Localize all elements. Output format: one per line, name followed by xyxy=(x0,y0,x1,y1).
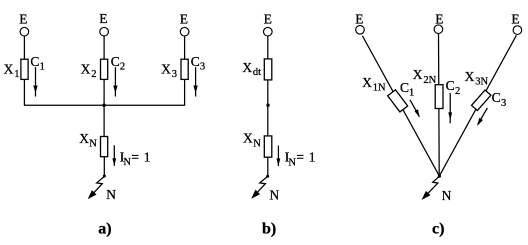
label X1N (c) xyxy=(362,75,386,93)
label X2N (c) xyxy=(413,67,437,86)
svg-text:N: N xyxy=(123,157,131,168)
svg-text:2: 2 xyxy=(455,86,460,97)
svg-text:C: C xyxy=(191,54,200,69)
wire E2 to N point (c) xyxy=(438,34,441,176)
resistor X1 (a) xyxy=(21,59,28,79)
svg-text:=: = xyxy=(131,149,139,164)
junction dot (a) xyxy=(102,104,105,107)
svg-text:X: X xyxy=(242,60,252,75)
wire X3 to bus (a) xyxy=(184,79,186,105)
terminal E2 circle (a) xyxy=(100,27,109,36)
junction dot (b) xyxy=(266,104,269,107)
label IN = 1 (a) xyxy=(120,149,151,168)
current arrow IN (b) xyxy=(277,146,281,167)
current arrow C2 (a) xyxy=(113,67,117,96)
label XN (b) xyxy=(243,131,261,150)
svg-text:C: C xyxy=(446,78,455,93)
svg-text:C: C xyxy=(111,54,120,69)
wire Xdt to XN (b) xyxy=(267,80,269,136)
svg-text:2: 2 xyxy=(120,62,125,73)
fault lightning arrow to N (b) xyxy=(251,176,267,198)
current arrow C3 (c) xyxy=(477,108,487,126)
terminal E1 circle (a) xyxy=(20,27,29,36)
wire E to Xdt (b) xyxy=(267,36,269,59)
svg-text:b): b) xyxy=(262,221,276,238)
svg-text:C: C xyxy=(400,80,409,95)
svg-text:=: = xyxy=(296,150,304,165)
svg-text:X: X xyxy=(79,131,89,146)
terminal E3 circle (c) xyxy=(513,26,522,35)
wire E1 to X1 (a) xyxy=(23,36,25,59)
label X2 (a) xyxy=(81,61,97,80)
wire XN to fault point (a) xyxy=(103,157,105,176)
svg-text:N: N xyxy=(442,188,452,203)
wire E2 to X2 (a) xyxy=(103,36,105,59)
svg-text:X: X xyxy=(362,75,372,90)
label X3N (c) xyxy=(465,69,489,87)
fault point dot (a) xyxy=(103,175,106,178)
svg-text:1: 1 xyxy=(409,88,414,99)
svg-text:X: X xyxy=(4,62,14,77)
svg-text:a): a) xyxy=(98,221,111,238)
resistor X2 (a) xyxy=(101,59,108,79)
svg-text:E: E xyxy=(99,11,107,26)
wire X1 to bus (a) xyxy=(23,79,25,105)
svg-text:1: 1 xyxy=(144,149,151,164)
bus wire (a) xyxy=(24,104,185,106)
resistor X2N (c) xyxy=(435,85,443,109)
label C1 (c) xyxy=(400,80,414,99)
label C1 (a) xyxy=(30,54,44,73)
wire E1 to N point (c) xyxy=(362,36,439,176)
current arrow C3 (a) xyxy=(193,67,197,96)
svg-text:E: E xyxy=(19,12,27,27)
resistor X3 (a) xyxy=(181,59,188,79)
terminal E circle (b) xyxy=(264,27,273,36)
svg-text:3: 3 xyxy=(172,69,177,80)
svg-text:2: 2 xyxy=(91,69,96,80)
fault point dot (b) xyxy=(266,175,269,178)
svg-text:E: E xyxy=(180,11,188,26)
svg-text:3: 3 xyxy=(200,62,205,73)
svg-text:X: X xyxy=(161,61,171,76)
terminal E3 circle (a) xyxy=(180,27,189,36)
svg-text:E: E xyxy=(511,11,519,26)
wire E3 to N point (c) xyxy=(439,35,516,176)
current arrow C1 (c) xyxy=(410,100,420,118)
label C3 (a) xyxy=(191,54,205,73)
svg-text:1: 1 xyxy=(40,62,45,73)
fault lightning arrow to N (c) xyxy=(422,176,440,200)
svg-text:N: N xyxy=(253,138,261,149)
svg-text:E: E xyxy=(355,11,363,26)
label C2 (c) xyxy=(446,78,461,97)
svg-text:E: E xyxy=(264,11,272,26)
label X1 (a) xyxy=(4,62,20,80)
svg-text:N: N xyxy=(270,188,280,203)
svg-text:E: E xyxy=(435,11,443,26)
wire E3 to X3 (a) xyxy=(184,36,186,59)
label Xdt (b) xyxy=(242,60,261,78)
svg-text:N: N xyxy=(106,187,116,202)
reactor Xdt (b) xyxy=(264,59,272,80)
label X3 (a) xyxy=(161,61,177,80)
current arrow IN (a) xyxy=(112,145,116,166)
label C2 (a) xyxy=(111,54,125,73)
current arrow C2 (c) xyxy=(448,93,452,123)
svg-text:2N: 2N xyxy=(423,75,436,86)
svg-text:c): c) xyxy=(432,221,444,238)
wire bus to XN (a) xyxy=(103,105,105,136)
wire XN to fault point (b) xyxy=(267,157,269,176)
resistor XN (a) xyxy=(101,137,108,157)
label XN (a) xyxy=(79,131,97,150)
terminal E1 circle (c) xyxy=(356,26,365,35)
svg-text:N: N xyxy=(89,139,97,150)
svg-text:dt: dt xyxy=(253,67,261,78)
svg-text:X: X xyxy=(413,67,423,82)
label C3 (c) xyxy=(492,90,507,109)
svg-text:N: N xyxy=(288,157,296,168)
convergence fault dot (c) xyxy=(438,175,441,178)
svg-text:3: 3 xyxy=(501,98,506,109)
svg-text:X: X xyxy=(243,131,253,146)
resistor X1N (c) xyxy=(388,90,408,112)
svg-text:C: C xyxy=(492,90,501,105)
fault lightning arrow to N (a) xyxy=(88,176,105,199)
current arrow C1 (a) xyxy=(33,67,37,96)
wire X2 to bus (a) xyxy=(103,79,105,105)
svg-text:3N: 3N xyxy=(475,77,488,88)
svg-text:X: X xyxy=(81,61,91,76)
resistor X3N (c) xyxy=(472,90,491,110)
svg-text:1N: 1N xyxy=(373,82,386,93)
svg-text:X: X xyxy=(465,69,475,84)
svg-text:1: 1 xyxy=(309,150,316,165)
svg-text:1: 1 xyxy=(14,69,19,80)
resistor XN (b) xyxy=(264,136,272,157)
label IN = 1 (b) xyxy=(285,150,316,169)
terminal E2 circle (c) xyxy=(434,25,443,34)
svg-text:C: C xyxy=(30,54,39,69)
